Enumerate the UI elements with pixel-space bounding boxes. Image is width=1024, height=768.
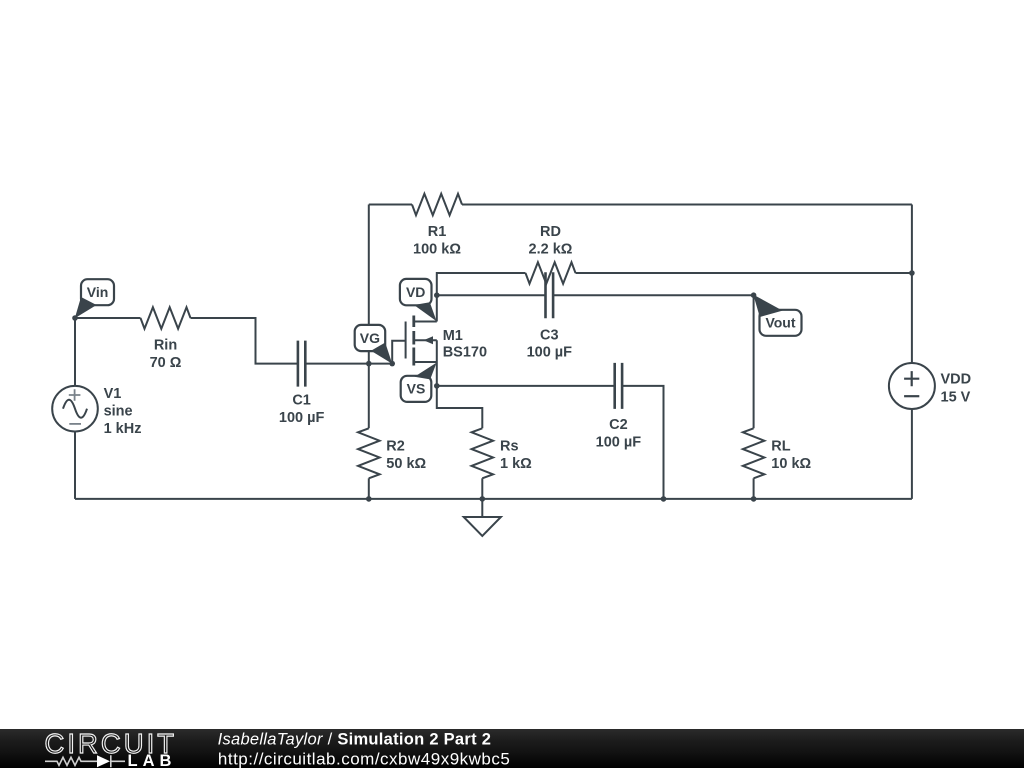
svg-text:70 Ω: 70 Ω — [150, 355, 182, 371]
svg-text:BS170: BS170 — [443, 345, 487, 361]
svg-text:1 kHz: 1 kHz — [104, 421, 142, 437]
svg-text:100 kΩ: 100 kΩ — [413, 242, 461, 258]
wire RL bottom lead — [753, 478, 755, 499]
capacitor C1 100 µF — [279, 341, 325, 426]
svg-text:M1: M1 — [443, 328, 463, 344]
resistor R1 100 kΩ — [412, 194, 462, 258]
node label VS — [401, 363, 437, 402]
wire MOSFET source down jog to Rs — [437, 340, 483, 428]
svg-text:Rs: Rs — [500, 439, 519, 455]
ground — [464, 499, 501, 536]
svg-text:15 V: 15 V — [941, 390, 971, 406]
node R2-bottom junction dot — [366, 496, 372, 502]
svg-text:VD: VD — [406, 284, 425, 300]
svg-text:IsabellaTaylor / Simulation 2: IsabellaTaylor / Simulation 2 Part 2 — [218, 730, 492, 748]
svg-text:1 kΩ: 1 kΩ — [500, 456, 532, 472]
wire top rail from R1 corner to VDD corner — [369, 204, 912, 206]
resistor R2 50 kΩ — [358, 428, 426, 478]
svg-text:Vout: Vout — [765, 314, 795, 330]
svg-text:2.2 kΩ: 2.2 kΩ — [529, 242, 573, 258]
node Vout junction dot — [751, 292, 757, 298]
svg-text:R1: R1 — [428, 224, 447, 240]
resistor Rs 1 kΩ — [472, 428, 533, 478]
voltage source V1 sine 1 kHz — [52, 386, 141, 437]
resistor RL 10 kΩ — [743, 428, 812, 478]
svg-text:V1: V1 — [104, 386, 122, 402]
node ground junction dot — [480, 496, 486, 502]
wire VDD rail lower — [911, 409, 913, 499]
svg-text:10 kΩ: 10 kΩ — [771, 456, 811, 472]
svg-text:VS: VS — [407, 381, 426, 397]
voltage source VDD 15 V — [889, 363, 971, 409]
svg-text:http://circuitlab.com/cxbw49x9: http://circuitlab.com/cxbw49x9kwbc5 — [218, 749, 510, 768]
resistor Rin 70 Ω — [141, 307, 191, 371]
node label Vin — [75, 279, 114, 318]
node C2-bottom junction dot — [661, 496, 667, 502]
wire C2 right plate then down to bottom rail — [622, 386, 663, 499]
svg-text:C3: C3 — [540, 328, 559, 344]
wire V1 bottom lead — [74, 432, 76, 499]
wire C3 right plate to Vout node — [553, 294, 754, 296]
node VD junction dot — [434, 292, 440, 298]
wire RD right lead to VDD rail — [576, 272, 912, 274]
CircuitLab logo diode triangle — [97, 755, 110, 767]
transistor M1 BS170 NMOS — [406, 316, 487, 366]
svg-text:R2: R2 — [386, 439, 405, 455]
node gate junction dot — [389, 361, 395, 367]
wire RL top lead from Vout node — [753, 295, 755, 428]
wire R2 bottom lead — [368, 478, 370, 499]
wire VS node to C2 left plate — [437, 385, 615, 387]
node VS junction dot — [434, 383, 440, 389]
svg-text:C1: C1 — [292, 393, 311, 409]
wire RD row: drain bar up, RD left lead — [437, 273, 526, 322]
wire bottom rail — [75, 498, 912, 500]
svg-text:VG: VG — [360, 330, 380, 346]
svg-text:50 kΩ: 50 kΩ — [386, 456, 426, 472]
svg-text:100 µF: 100 µF — [596, 435, 642, 451]
wire Vin node to Rin to corner to C1 left plate — [75, 318, 298, 364]
capacitor C2 100 µF — [596, 363, 642, 451]
svg-text:C2: C2 — [609, 417, 628, 433]
svg-text:100 µF: 100 µF — [527, 345, 573, 361]
wire VDD rail upper — [911, 205, 913, 364]
svg-text:VDD: VDD — [941, 372, 972, 388]
wire left column vertical from top rail down to R2 — [368, 205, 370, 429]
svg-text:Rin: Rin — [154, 338, 177, 354]
wire V1 top lead to Vin node — [74, 318, 76, 386]
wire C1 right plate to VG junction and gate node — [305, 363, 392, 365]
node RL-bottom junction dot — [751, 496, 757, 502]
wire Rs bottom lead — [481, 478, 483, 499]
node label VD — [400, 279, 437, 321]
CircuitLab logo resistor-diode squiggle — [45, 755, 125, 767]
svg-text:RD: RD — [540, 224, 561, 240]
node label Vout — [753, 295, 801, 336]
svg-text:Vin: Vin — [87, 284, 109, 300]
resistor RD 2.2 kΩ — [526, 224, 576, 284]
node VG-column junction dot — [366, 361, 372, 367]
svg-text:sine: sine — [104, 404, 133, 420]
node Vin junction dot — [72, 315, 78, 321]
node RD-VDD junction dot — [909, 270, 915, 276]
svg-text:LAB: LAB — [128, 752, 177, 768]
capacitor C3 100 µF — [527, 272, 573, 360]
svg-text:100 µF: 100 µF — [279, 410, 325, 426]
wire VD node to C3 left plate — [437, 294, 546, 296]
svg-text:RL: RL — [771, 439, 790, 455]
wire gate lead up and to gate bar — [392, 341, 405, 364]
node label VG — [355, 325, 393, 364]
